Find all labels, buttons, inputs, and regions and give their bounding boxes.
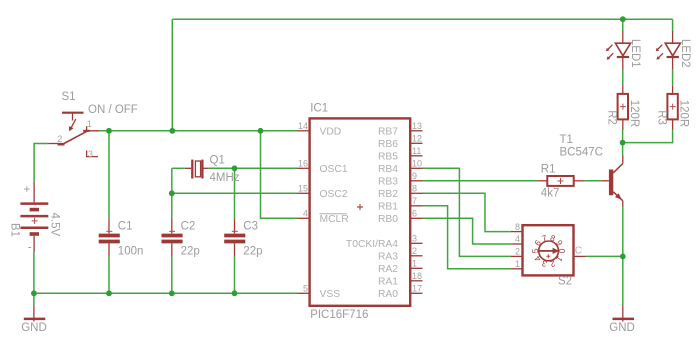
junction top rail x LED1 bbox=[620, 16, 626, 22]
capacitor C3 bbox=[224, 219, 245, 257]
wire LED2 to R3 bbox=[672, 69, 674, 86]
wire VDD rail bbox=[100, 130, 297, 132]
svg-text:7: 7 bbox=[412, 196, 417, 206]
resistor R3 bbox=[667, 86, 677, 130]
junction bottom rail x C3 bbox=[232, 290, 238, 296]
svg-text:6: 6 bbox=[412, 209, 417, 219]
svg-text:RB4: RB4 bbox=[378, 164, 398, 175]
pin 4 MCLR stub bbox=[297, 217, 310, 219]
svg-text:ON / OFF: ON / OFF bbox=[88, 104, 138, 116]
svg-text:9: 9 bbox=[412, 171, 417, 181]
junction VDD rail x MCLR pullup bbox=[258, 128, 264, 134]
op-amp U1 is absent; microcontroller IC1 box bbox=[310, 118, 411, 305]
capacitor C1 bbox=[99, 219, 120, 257]
svg-text:PIC16F716: PIC16F716 bbox=[310, 309, 368, 321]
junction bottom rail x C1 bbox=[106, 290, 112, 296]
pin 3 T0CKI stub bbox=[410, 242, 422, 244]
svg-text:3: 3 bbox=[412, 234, 417, 244]
resistor R1 bbox=[537, 176, 585, 186]
svg-text:RA0: RA0 bbox=[378, 289, 398, 300]
pin 9 RB3 stub bbox=[410, 180, 422, 182]
svg-text:17: 17 bbox=[412, 284, 422, 294]
transistor T1 bbox=[601, 155, 623, 206]
switch S1 bbox=[49, 113, 100, 157]
svg-text:5: 5 bbox=[303, 284, 308, 294]
svg-text:13: 13 bbox=[412, 121, 422, 131]
junction R2 R3 collector node bbox=[620, 140, 626, 146]
pin 12 RB6 stub bbox=[410, 142, 422, 144]
svg-text:RB6: RB6 bbox=[378, 139, 398, 150]
wire C1 bottom bbox=[108, 256, 110, 293]
svg-text:B1: B1 bbox=[9, 223, 21, 237]
svg-text:GND: GND bbox=[21, 322, 47, 334]
svg-text:5: 5 bbox=[530, 248, 540, 253]
junction emitter x S2 common bbox=[620, 254, 626, 260]
svg-text:12: 12 bbox=[412, 134, 422, 144]
svg-text:T0CKI/RA4: T0CKI/RA4 bbox=[346, 239, 398, 250]
junction VDD rail x C1 bbox=[106, 128, 112, 134]
junction bottom rail x battery GND bbox=[31, 290, 37, 296]
wire RB1 to S2 pin1 bbox=[423, 206, 511, 269]
pin 8 RB2 stub bbox=[410, 192, 422, 194]
wire S1 pin2 to battery plus bbox=[34, 144, 48, 182]
wire C3 drop bbox=[234, 168, 236, 218]
wire GND bottom rail bbox=[34, 292, 297, 294]
wire to GND symbol left bbox=[33, 293, 35, 305]
svg-text:C: C bbox=[575, 245, 583, 256]
rotary switch S2 bbox=[511, 225, 586, 275]
ground GND left bbox=[24, 306, 46, 322]
svg-text:RB3: RB3 bbox=[378, 176, 398, 187]
pin 16 OSC1 stub bbox=[297, 167, 310, 169]
junction OSC1 x C3 bbox=[232, 165, 238, 171]
wire C1 top drop bbox=[108, 131, 110, 219]
wire RB2 to S2 pin8 bbox=[423, 193, 511, 231]
svg-text:R3: R3 bbox=[655, 110, 667, 125]
svg-text:0: 0 bbox=[557, 249, 567, 254]
pin 10 RB4 stub bbox=[410, 167, 422, 169]
svg-text:R1: R1 bbox=[541, 163, 556, 175]
svg-text:LED1: LED1 bbox=[629, 39, 641, 68]
pin 15 OSC2 stub bbox=[297, 192, 310, 194]
svg-text:Q1: Q1 bbox=[210, 155, 225, 167]
wire LED1 to R2 bbox=[622, 69, 624, 86]
wire LED1 top bbox=[622, 19, 624, 31]
wire RB3 to R1 bbox=[423, 180, 538, 182]
svg-text:IC1: IC1 bbox=[310, 103, 328, 115]
svg-text:15: 15 bbox=[298, 184, 308, 194]
capacitor C2 bbox=[162, 219, 183, 257]
svg-text:120R: 120R bbox=[628, 100, 640, 128]
svg-text:-: - bbox=[28, 242, 32, 254]
wire top rail VCC bbox=[172, 18, 672, 20]
LED LED2 bbox=[656, 31, 681, 69]
pin 17 RA0 stub bbox=[410, 292, 422, 294]
svg-text:1: 1 bbox=[412, 259, 417, 269]
svg-text:+: + bbox=[24, 184, 31, 196]
svg-text:14: 14 bbox=[298, 121, 308, 131]
wire R1 to T1 base bbox=[585, 180, 601, 182]
svg-text:OSC2: OSC2 bbox=[320, 189, 348, 200]
battery B1 bbox=[20, 182, 48, 252]
wire RB4 to S2 pin2 bbox=[423, 168, 511, 256]
svg-text:C1: C1 bbox=[118, 220, 133, 232]
junction OSC2 x C2 bbox=[169, 190, 175, 196]
svg-text:1: 1 bbox=[87, 119, 92, 129]
svg-text:RB7: RB7 bbox=[378, 126, 398, 137]
svg-text:2: 2 bbox=[412, 246, 417, 256]
wire crystal left down to OSC2 bbox=[171, 168, 173, 193]
svg-text:LED2: LED2 bbox=[679, 39, 691, 68]
pin 1 RA2 stub bbox=[410, 267, 422, 269]
svg-text:RA1: RA1 bbox=[378, 276, 398, 287]
wire C2 drop bbox=[171, 193, 173, 218]
svg-text:RA3: RA3 bbox=[378, 251, 398, 262]
pin 14 VDD stub bbox=[297, 130, 310, 132]
pin 11 RB5 stub bbox=[410, 155, 422, 157]
svg-text:4.5V: 4.5V bbox=[48, 213, 60, 237]
svg-text:22p: 22p bbox=[181, 246, 200, 258]
wire C3 bottom bbox=[234, 256, 236, 293]
wire R3 bottom link to collector node bbox=[623, 130, 673, 143]
wire collector node down bbox=[622, 143, 624, 156]
wire OSC1 net left segment bbox=[172, 167, 185, 169]
wire OSC2 net to pin15 bbox=[172, 192, 297, 194]
wire battery minus down bbox=[33, 252, 35, 293]
svg-text:120R: 120R bbox=[678, 100, 690, 128]
svg-text:VDD: VDD bbox=[320, 126, 342, 137]
svg-text:4k7: 4k7 bbox=[541, 187, 560, 199]
svg-text:16: 16 bbox=[298, 159, 308, 169]
svg-text:RB2: RB2 bbox=[378, 189, 398, 200]
svg-text:1: 1 bbox=[515, 259, 520, 269]
crystal Q1 bbox=[185, 160, 209, 179]
pin 6 RB0 stub bbox=[410, 217, 422, 219]
svg-text:RA2: RA2 bbox=[378, 264, 398, 275]
wire emitter to GND right bbox=[622, 207, 624, 306]
wire C2 bottom bbox=[171, 256, 173, 293]
svg-text:22p: 22p bbox=[243, 246, 262, 258]
svg-text:R2: R2 bbox=[606, 110, 618, 125]
svg-text:MCLR: MCLR bbox=[320, 214, 349, 225]
svg-text:VSS: VSS bbox=[320, 289, 341, 300]
svg-text:18: 18 bbox=[412, 271, 422, 281]
wire LED2 top bbox=[672, 19, 674, 31]
svg-text:100n: 100n bbox=[118, 246, 144, 258]
wire MCLR pullup bbox=[261, 131, 298, 219]
pin 7 RB1 stub bbox=[410, 205, 422, 207]
svg-text:4: 4 bbox=[515, 234, 520, 244]
svg-text:10: 10 bbox=[412, 159, 422, 169]
svg-text:S1: S1 bbox=[62, 91, 76, 103]
svg-text:BC547C: BC547C bbox=[560, 146, 603, 158]
svg-text:C2: C2 bbox=[181, 220, 196, 232]
wire OSC1 net crystal to pin16 bbox=[209, 167, 297, 169]
wire R2 bottom to collector node bbox=[622, 130, 624, 143]
svg-text:T1: T1 bbox=[560, 134, 573, 146]
svg-text:3: 3 bbox=[88, 149, 93, 159]
pin 13 RB7 stub bbox=[410, 130, 422, 132]
svg-text:RB1: RB1 bbox=[378, 201, 398, 212]
resistor R2 bbox=[618, 86, 628, 130]
pin 18 RA1 stub bbox=[410, 280, 422, 282]
svg-text:RB5: RB5 bbox=[378, 151, 398, 162]
ground GND right bbox=[613, 306, 635, 322]
svg-text:RB0: RB0 bbox=[378, 214, 398, 225]
pin 5 VSS stub bbox=[297, 292, 310, 294]
wire S2 common to emitter net bbox=[586, 255, 623, 257]
LED LED1 bbox=[606, 31, 631, 69]
pin 2 RA3 stub bbox=[410, 255, 422, 257]
svg-text:4MHz: 4MHz bbox=[210, 172, 240, 184]
svg-text:8: 8 bbox=[412, 184, 417, 194]
svg-text:4: 4 bbox=[303, 209, 308, 219]
svg-text:OSC1: OSC1 bbox=[320, 164, 348, 175]
wire VCC vertical from top rail to VDD rail bbox=[171, 19, 173, 131]
junction bottom rail x C2 bbox=[169, 290, 175, 296]
svg-text:8: 8 bbox=[515, 222, 520, 232]
svg-text:C3: C3 bbox=[243, 220, 258, 232]
junction VDD rail x VCC vertical bbox=[169, 128, 175, 134]
svg-text:2: 2 bbox=[515, 247, 520, 257]
svg-text:GND: GND bbox=[609, 322, 635, 334]
svg-text:S2: S2 bbox=[558, 276, 572, 288]
svg-text:2: 2 bbox=[57, 134, 62, 144]
wire RB0 to S2 pin4 bbox=[423, 218, 511, 244]
svg-text:11: 11 bbox=[412, 146, 421, 156]
pin name MCLR with overline bbox=[320, 214, 349, 225]
